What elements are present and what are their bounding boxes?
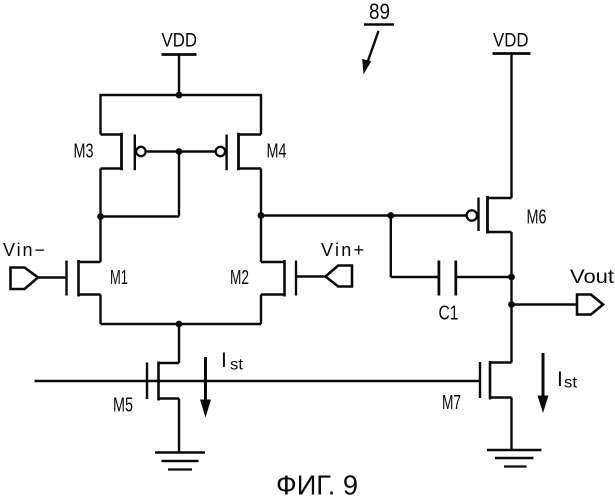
- svg-text:M1: M1: [110, 266, 128, 289]
- ground (right): [487, 450, 542, 467]
- wire VDD left down to top rail: [178, 55, 180, 96]
- svg-text:M6: M6: [527, 206, 547, 229]
- svg-text:Vin−: Vin−: [3, 240, 45, 260]
- svg-text:M3: M3: [74, 140, 94, 163]
- wire tail net: [101, 323, 262, 325]
- transistor M1 (NMOS input): [38, 260, 128, 297]
- capacitor C1: [439, 261, 459, 325]
- svg-text:ФИГ. 9: ФИГ. 9: [276, 470, 358, 500]
- wire tail down to M5: [178, 324, 180, 363]
- transistor M6 (PMOS output): [467, 196, 547, 234]
- transistor M3 (PMOS, diode-connected): [74, 133, 146, 170]
- svg-text:M4: M4: [267, 140, 287, 163]
- wire M2 source down: [260, 295, 262, 325]
- transistor M7 (NMOS output current source): [442, 361, 512, 414]
- input port Vin-: [3, 240, 45, 289]
- wire mirror output net to M6 gate: [261, 214, 467, 216]
- junction dot top rail: [176, 92, 183, 99]
- wire M7 source down: [510, 398, 512, 451]
- svg-text:VDD: VDD: [493, 31, 529, 52]
- wire M5 source down: [178, 399, 180, 453]
- junction dot C1/output: [508, 274, 515, 281]
- svg-text:st: st: [564, 375, 578, 392]
- svg-text:M7: M7: [442, 391, 461, 414]
- junction dot compensation tap: [387, 212, 394, 219]
- transistor M5 (NMOS tail current source): [113, 362, 179, 417]
- transistor M4 (PMOS mirror): [216, 133, 287, 170]
- junction dot M4 drain: [258, 212, 265, 219]
- ground (left): [155, 453, 205, 470]
- junction dot M3 drain: [97, 213, 104, 220]
- wire left branch from rail to M3 source: [99, 94, 101, 135]
- svg-text:M2: M2: [230, 266, 249, 289]
- label Ist (left): [221, 349, 244, 374]
- label Ist (right): [557, 368, 578, 392]
- svg-text:89: 89: [369, 0, 390, 24]
- svg-text:C1: C1: [439, 302, 459, 325]
- figure number 89: [362, 0, 394, 75]
- junction dot Vout tap: [508, 301, 515, 308]
- current arrow Ist (right): [538, 353, 549, 413]
- wire M1 source down: [99, 295, 101, 325]
- junction dot tail: [176, 321, 183, 328]
- wire right branch from rail to M4 source: [260, 94, 262, 135]
- output port Vout: [570, 266, 615, 315]
- input port Vin+: [321, 240, 364, 287]
- wire M6 drain down to M7 drain: [510, 232, 512, 363]
- wire gate net between M3 and M4 circles: [146, 150, 216, 152]
- svg-text:st: st: [230, 357, 244, 374]
- wire top rail: [101, 94, 262, 96]
- wire down to C1: [390, 216, 392, 278]
- wire gate net down: [178, 152, 180, 217]
- current arrow Ist (left): [200, 357, 211, 418]
- svg-text:Vout: Vout: [570, 266, 615, 288]
- svg-text:Vin+: Vin+: [321, 240, 364, 260]
- wire bias line M5 gate to M7 gate: [35, 380, 480, 382]
- wire M4 drain down: [260, 169, 262, 263]
- svg-text:VDD: VDD: [162, 31, 198, 52]
- wire M3 drain down to junction: [99, 169, 101, 263]
- power VDD (left): [162, 31, 198, 55]
- wire VDD right down to M6 source: [510, 54, 512, 199]
- wire gate net to left branch: [101, 215, 180, 217]
- svg-text:M5: M5: [113, 394, 133, 417]
- svg-text:I: I: [221, 349, 227, 372]
- wire to C1 left plate: [391, 276, 439, 278]
- wire C1 right plate to output branch: [456, 276, 512, 278]
- power VDD (right): [493, 31, 531, 54]
- svg-text:I: I: [557, 368, 563, 391]
- junction dot gate net: [176, 148, 183, 155]
- transistor M2 (NMOS input): [230, 260, 326, 297]
- wire to Vout port: [512, 303, 577, 305]
